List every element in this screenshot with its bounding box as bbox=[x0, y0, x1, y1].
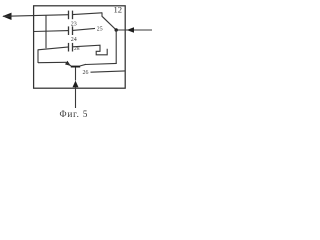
block 12 (outer box) bbox=[34, 6, 126, 88]
wire: branch of capacitor 24 from box edge bbox=[34, 30, 69, 33]
transistor 26 base lead bbox=[75, 67, 77, 80]
svg-text:12: 12 bbox=[114, 4, 123, 14]
capacitor 23 bbox=[68, 11, 70, 20]
wire: cap23 to switch contact bbox=[73, 13, 103, 15]
node: junction dot bbox=[115, 28, 118, 31]
svg-text:Фиг. 5: Фиг. 5 bbox=[60, 109, 89, 119]
wire: base boundary line to box edge bbox=[91, 71, 126, 72]
wire: cap28 right lead into hook bbox=[73, 45, 108, 55]
svg-text:26: 26 bbox=[83, 70, 89, 76]
transistor 26 base bar bbox=[71, 66, 80, 68]
switch fixed contact tick bbox=[101, 12, 103, 16]
svg-text:24: 24 bbox=[71, 37, 77, 43]
switch 25 arm bbox=[102, 17, 116, 30]
output arrow (left, node A) bbox=[2, 13, 11, 20]
wire: output line through box edge to capacitor 23 bbox=[3, 15, 69, 17]
svg-text:25: 25 bbox=[97, 27, 103, 33]
capacitor 24 bbox=[68, 26, 70, 35]
wire: emitter wire bbox=[38, 61, 67, 63]
svg-text:23: 23 bbox=[71, 22, 77, 28]
wire: cap24 open lead bbox=[73, 28, 96, 30]
capacitor 28 bbox=[68, 43, 70, 52]
input arrow (bottom, into base) bbox=[73, 81, 79, 88]
transistor 26 emitter arrow (PNP) bbox=[65, 61, 71, 66]
wire: collector line to riser bbox=[86, 63, 117, 64]
input arrow (right) bbox=[116, 29, 152, 31]
wire: riser from junction to collector line bbox=[115, 30, 117, 64]
wire: branch of capacitor 28 (emitter node) bbox=[38, 47, 69, 50]
wire: left bus bbox=[45, 15, 47, 48]
transistor 26 collector lead bbox=[80, 64, 86, 66]
wire: corner down to emitter wire bbox=[37, 49, 39, 63]
